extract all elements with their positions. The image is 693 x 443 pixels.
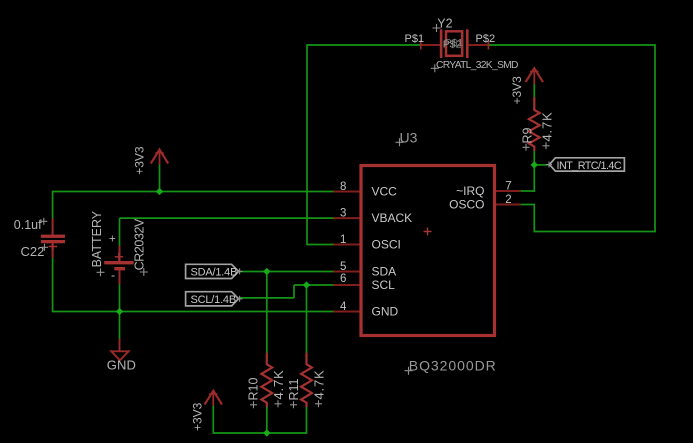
wire +3V3 stem above R9 bbox=[533, 84, 535, 97]
wire R10 bottom vertical bbox=[266, 406, 268, 433]
svg-text:0.1uf: 0.1uf bbox=[14, 218, 42, 232]
wire bottom +3V3 rail bbox=[213, 432, 307, 434]
pin U3.5 SDA stub bbox=[333, 271, 361, 273]
battery origin cross bbox=[115, 253, 124, 262]
supply +3V3 arrow bottom bbox=[205, 391, 222, 405]
svg-text:GND: GND bbox=[107, 358, 136, 373]
pin U3.3 VBACK stub bbox=[333, 217, 361, 219]
supply +3V3 arrow top-right bbox=[526, 68, 543, 82]
pin U3.1 OSCI stub bbox=[333, 244, 361, 246]
anchor cross R11 value bbox=[315, 400, 322, 407]
svg-text:4: 4 bbox=[340, 301, 347, 313]
wire pin 2 green segment bbox=[521, 204, 535, 206]
svg-text:P$1: P$1 bbox=[405, 33, 425, 45]
svg-text:OSCO: OSCO bbox=[449, 198, 484, 212]
wire bottom horizontal OSCO return bbox=[534, 231, 656, 233]
anchor cross R9 value bbox=[543, 142, 550, 149]
pin U3.4 GND stub bbox=[333, 311, 361, 313]
wire R11 top vertical bbox=[306, 285, 308, 353]
capacitor C22 top lead bbox=[52, 218, 54, 234]
wire SCL into pin 6 bbox=[294, 284, 334, 286]
capacitor C22 top plate bbox=[41, 235, 65, 238]
pin U3.7 ~IRQ stub bbox=[495, 190, 521, 192]
svg-text:7: 7 bbox=[505, 181, 511, 193]
svg-text:R11: R11 bbox=[287, 378, 301, 400]
anchor cross R11 bbox=[290, 401, 297, 408]
resistor R11 zigzag bbox=[301, 353, 312, 407]
battery G1 negative plate bbox=[114, 267, 125, 270]
junction node VCC rail bbox=[156, 188, 163, 195]
wire pin 7 green segment bbox=[521, 190, 535, 192]
wire left vertical below C22 bbox=[52, 258, 54, 313]
svg-text:CR2032V: CR2032V bbox=[133, 218, 147, 270]
svg-text:~IRQ: ~IRQ bbox=[456, 184, 484, 198]
svg-text:3: 3 bbox=[340, 208, 346, 220]
svg-text:SCL/1.4B: SCL/1.4B bbox=[191, 294, 236, 306]
junction node SCL/R11 bbox=[303, 281, 310, 288]
pin U3.8 VCC stub bbox=[333, 191, 361, 193]
net flag SCL/1.4B outline bbox=[186, 292, 239, 306]
svg-text:+3V3: +3V3 bbox=[133, 146, 147, 175]
wire right vertical down bbox=[654, 44, 656, 232]
wire battery top to VBACK net bbox=[120, 217, 335, 219]
net flag SDA/1.4B outline bbox=[186, 264, 239, 278]
wire left vertical to OSCI bbox=[306, 44, 308, 245]
svg-text:GND: GND bbox=[372, 305, 399, 319]
svg-text:OSCI: OSCI bbox=[372, 238, 401, 252]
resistor R10 zigzag bbox=[261, 353, 272, 407]
net flag INT_RTC/1.4C outline bbox=[549, 158, 624, 171]
anchor cross Y2 bbox=[433, 24, 441, 32]
wire node to INT_RTC flag bbox=[534, 164, 549, 166]
svg-text:SDA: SDA bbox=[372, 265, 397, 279]
svg-text:4.7K: 4.7K bbox=[540, 112, 555, 142]
svg-text:P$1: P$1 bbox=[445, 37, 464, 49]
anchor cross BATTERY bbox=[97, 268, 105, 276]
svg-text:CRYATL_32K_SMD: CRYATL_32K_SMD bbox=[436, 60, 518, 71]
svg-text:-: - bbox=[111, 269, 115, 283]
svg-text:R9: R9 bbox=[521, 127, 535, 143]
wire R11 bottom vertical bbox=[306, 406, 308, 433]
svg-text:BQ32000DR: BQ32000DR bbox=[409, 358, 497, 374]
capacitor C22 bottom lead bbox=[52, 243, 54, 258]
svg-text:SDA/1.4B: SDA/1.4B bbox=[191, 267, 238, 279]
wire R9 bottom to node bbox=[533, 151, 535, 165]
wire OSCO drop vertical bbox=[533, 205, 535, 233]
anchor cross CRYATL bbox=[431, 64, 439, 72]
junction node R10 bottom bbox=[263, 429, 270, 436]
wire left vertical above C22 bbox=[52, 191, 54, 219]
svg-text:C22: C22 bbox=[21, 244, 45, 259]
svg-text:+: + bbox=[109, 233, 116, 245]
junction node GND rail bbox=[116, 308, 123, 315]
resistor R9 zigzag bbox=[529, 97, 540, 151]
svg-text:8: 8 bbox=[340, 181, 346, 193]
anchor cross 0.1uf bbox=[40, 218, 47, 225]
crystal Y2 pin end tick left bbox=[420, 41, 422, 50]
crystal Y2 body rect bbox=[446, 31, 462, 56]
capacitor C22 bottom plate bbox=[41, 240, 65, 243]
IC U3 origin cross bbox=[424, 228, 432, 236]
wire SDA net bbox=[239, 271, 334, 273]
capacitor C22 origin cross bbox=[49, 242, 58, 251]
svg-text:VBACK: VBACK bbox=[372, 211, 413, 225]
svg-text:VCC: VCC bbox=[372, 185, 398, 199]
wire VCC net horizontal bbox=[53, 191, 334, 193]
wire node to pin 7 row bbox=[533, 165, 535, 192]
wire bottom GND net horizontal bbox=[53, 311, 334, 313]
battery G1 positive plate bbox=[104, 261, 133, 264]
crystal Y2 pin end tick right bbox=[487, 41, 489, 50]
svg-text:4.7K: 4.7K bbox=[271, 370, 286, 400]
svg-text:P$2: P$2 bbox=[476, 33, 496, 45]
wire top net from OSCI side to crystal P$1 bbox=[307, 44, 421, 46]
wire SCL jog vertical bbox=[293, 285, 295, 298]
supply +3V3 arrow top-left bbox=[151, 150, 168, 164]
wire +3V3 stem top-left bbox=[159, 164, 161, 192]
flag anchor cross SDA bbox=[237, 268, 243, 274]
crystal Y2 right plate bbox=[466, 29, 469, 58]
svg-text:2: 2 bbox=[505, 194, 511, 206]
wire GND drop bbox=[119, 312, 121, 340]
anchor cross CR2032V bbox=[140, 268, 148, 276]
junction node SDA/R10 bbox=[263, 268, 270, 275]
svg-text:6: 6 bbox=[340, 273, 346, 285]
svg-text:5: 5 bbox=[340, 261, 346, 273]
wire into OSCI pin bbox=[307, 244, 334, 246]
wire battery bottom vertical bbox=[119, 284, 121, 312]
svg-text:4.7K: 4.7K bbox=[312, 370, 327, 400]
wire battery top vertical bbox=[119, 218, 121, 246]
pin U3.6 SCL stub bbox=[333, 284, 361, 286]
ground symbol GND triangle bbox=[111, 351, 128, 360]
svg-text:U3: U3 bbox=[400, 129, 418, 145]
op IC U3 body bbox=[361, 166, 495, 336]
flag anchor cross SCL bbox=[237, 296, 243, 302]
svg-text:R10: R10 bbox=[247, 378, 261, 401]
crystal Y2 pin P$2 stub bbox=[467, 44, 488, 46]
wire crystal P$2 to top right corner bbox=[488, 44, 656, 46]
ground symbol stem bbox=[119, 339, 121, 352]
flag anchor cross INT_RTC bbox=[546, 162, 552, 168]
svg-text:+3V3: +3V3 bbox=[191, 402, 205, 431]
anchor cross U3 bbox=[396, 138, 404, 146]
svg-text:INT_RTC/1.4C: INT_RTC/1.4C bbox=[557, 160, 622, 172]
crystal Y2 left plate bbox=[440, 29, 443, 58]
anchor cross R9 bbox=[523, 144, 530, 151]
svg-text:BATTERY: BATTERY bbox=[90, 210, 104, 267]
wire SCL net from flag bbox=[239, 297, 294, 299]
anchor cross R10 value bbox=[275, 400, 282, 407]
wire R10 top vertical bbox=[266, 272, 268, 354]
svg-text:+3V3: +3V3 bbox=[510, 76, 524, 105]
pin U3.2 OSCO stub bbox=[495, 204, 521, 206]
svg-text:SCL: SCL bbox=[372, 278, 396, 292]
battery top lead bbox=[119, 246, 121, 261]
battery bottom lead bbox=[119, 270, 121, 284]
junction node INT_RTC/R9 bbox=[531, 161, 538, 168]
anchor cross C22 bbox=[41, 244, 48, 251]
anchor cross BQ32000DR bbox=[405, 367, 413, 375]
wire +3V3 stem bottom bbox=[212, 406, 214, 434]
svg-text:1: 1 bbox=[340, 234, 346, 246]
anchor cross R10 bbox=[250, 401, 257, 408]
crystal Y2 pin P$1 stub bbox=[421, 44, 441, 46]
